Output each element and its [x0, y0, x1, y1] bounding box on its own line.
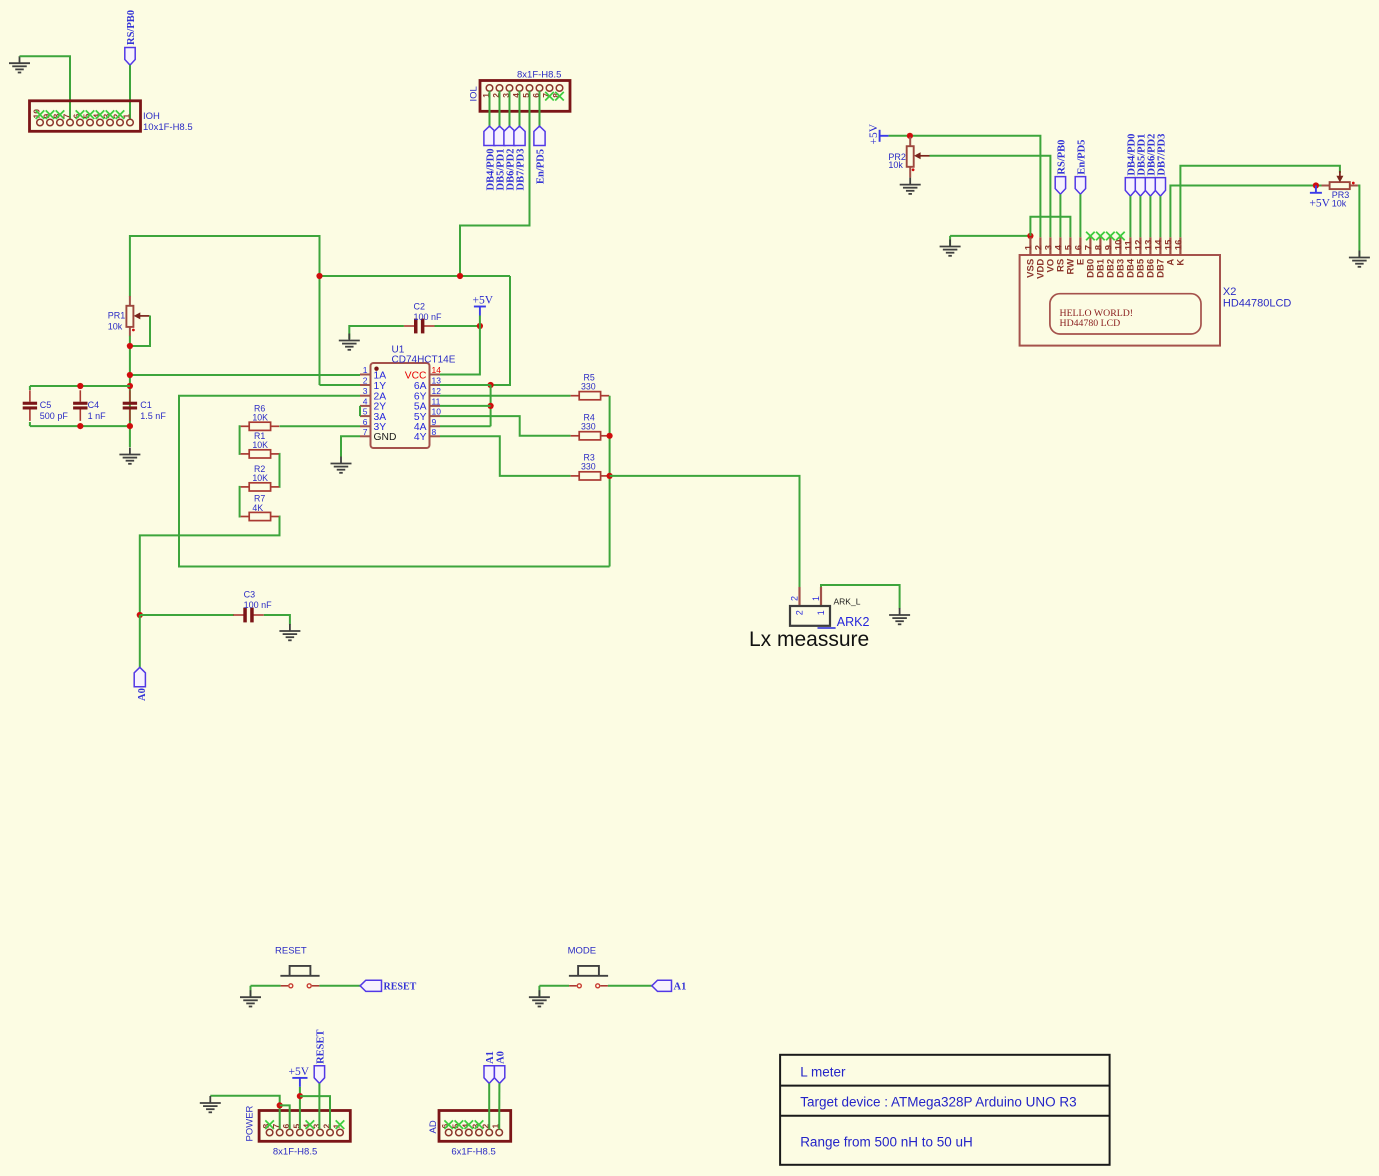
svg-text:7: 7 — [62, 114, 72, 119]
svg-text:8x1F-H8.5: 8x1F-H8.5 — [517, 70, 561, 81]
wire — [488, 1083, 490, 1129]
power +5V — [474, 307, 486, 316]
svg-text:12: 12 — [432, 386, 442, 396]
potentiometer PR1 10k — [126, 296, 149, 336]
svg-text:1Y: 1Y — [374, 381, 387, 392]
wire ground to POWER pins 7,6 — [210, 1096, 279, 1130]
POWER pin 3 — [317, 1129, 324, 1136]
AD pin 1 — [496, 1129, 503, 1136]
svg-text:10k: 10k — [108, 321, 123, 331]
U1 pin 8 4Y — [430, 435, 441, 437]
svg-text:1.5 nF: 1.5 nF — [140, 411, 166, 421]
junction — [77, 423, 83, 429]
X2 pin 2 VDD — [1039, 237, 1041, 255]
X2 pin 5 RW — [1069, 237, 1071, 255]
resistor R2 10K — [241, 483, 280, 491]
IOH pin 4 — [97, 119, 104, 126]
X2 pin 11 DB4 — [1129, 237, 1131, 255]
IOH pin 3 — [107, 119, 114, 126]
wire — [240, 487, 241, 517]
svg-text:IOL: IOL — [469, 86, 480, 101]
svg-text:330: 330 — [581, 421, 596, 431]
wire — [140, 614, 234, 616]
wire ARK2 pin1 to ground — [821, 585, 900, 609]
IOL pin 8 — [556, 85, 563, 92]
wire — [320, 275, 511, 277]
power +5V — [880, 130, 889, 142]
U1 pin 5 3A — [360, 415, 371, 417]
svg-text:3: 3 — [363, 386, 368, 396]
net flag En/PD5 — [1075, 177, 1085, 195]
resistor R7 4K — [241, 512, 280, 520]
wire — [499, 91, 501, 126]
svg-text:2: 2 — [790, 596, 800, 601]
junction — [127, 383, 133, 389]
power +5V — [292, 1078, 307, 1087]
junction — [127, 343, 133, 349]
power +5V — [1310, 186, 1322, 193]
wire — [30, 385, 130, 387]
wire — [949, 236, 951, 246]
svg-text:DB7/PD3: DB7/PD3 — [1156, 134, 1167, 176]
X2 pin 16 K — [1179, 237, 1181, 255]
U1 pin 3 2A — [360, 395, 371, 397]
wire — [1159, 196, 1161, 237]
svg-text:100 nF: 100 nF — [244, 600, 273, 610]
IOL pin 2 — [496, 85, 503, 92]
wire — [349, 326, 404, 339]
svg-text:6A: 6A — [414, 381, 427, 392]
resistor R3 330 — [571, 472, 610, 480]
wire U1 pin7 to ground — [341, 436, 360, 456]
wire U1 pin10 to R4 — [440, 416, 571, 436]
svg-text:10K: 10K — [252, 413, 268, 423]
svg-text:IOH: IOH — [143, 111, 160, 122]
svg-text:L meter: L meter — [800, 1065, 846, 1080]
capacitor C2 100nF — [404, 319, 435, 334]
svg-text:330: 330 — [581, 461, 596, 471]
svg-text:En/PD5: En/PD5 — [1076, 140, 1087, 175]
junction — [457, 273, 463, 279]
junction — [316, 273, 322, 279]
wire U1 pin6 from R6 — [280, 425, 361, 427]
wire — [1059, 194, 1061, 237]
IOL pin 1 — [486, 85, 493, 92]
svg-text:100 nF: 100 nF — [414, 312, 443, 322]
wire — [139, 615, 141, 667]
svg-text:6x1F-H8.5: 6x1F-H8.5 — [451, 1147, 495, 1158]
svg-text:+5V: +5V — [1309, 197, 1330, 209]
svg-text:10k: 10k — [888, 160, 903, 170]
POWER pin 4 — [307, 1129, 314, 1136]
junction — [1313, 182, 1319, 188]
connector IOH 10x1F-H8.5 — [30, 101, 141, 132]
IOH pin 2 — [117, 119, 124, 126]
net flag RESET — [314, 1066, 324, 1084]
svg-text:CD74HCT14E: CD74HCT14E — [392, 354, 456, 365]
net flag DB4/PD0 — [484, 126, 495, 146]
resistor R5 330 — [571, 392, 610, 400]
IOH pin 9 — [47, 119, 54, 126]
U1 pin 14 VCC — [430, 374, 441, 376]
LCD module X2 HD44780LCD — [1020, 255, 1220, 346]
svg-text:2: 2 — [363, 376, 368, 386]
svg-text:POWER: POWER — [244, 1105, 255, 1141]
connector ARK2 ARK_L pin 2 — [798, 587, 800, 606]
wire — [319, 985, 360, 987]
wire +5V to POWER pins 5,2 — [299, 1087, 301, 1130]
svg-text:A1: A1 — [485, 1051, 496, 1064]
capacitor C3 100nF — [233, 608, 264, 623]
svg-text:En/PD5: En/PD5 — [536, 149, 547, 184]
ground — [119, 448, 140, 464]
POWER pin 2 — [327, 1129, 334, 1136]
IOH pin 8 — [57, 119, 64, 126]
IOH pin 5 — [87, 119, 94, 126]
ground — [240, 990, 261, 1006]
wire — [539, 985, 569, 987]
svg-text:10: 10 — [432, 407, 442, 417]
wire — [519, 91, 521, 126]
wire U1 pin1 net — [130, 374, 360, 376]
IOH pin 10 — [37, 119, 44, 126]
X2 pin 9 DB2 — [1109, 237, 1111, 255]
svg-text:14: 14 — [432, 365, 442, 375]
capacitor C1 1.5nF — [123, 390, 137, 421]
wire PR3 to ground — [1358, 186, 1360, 258]
wire — [538, 986, 540, 997]
wire — [278, 454, 280, 487]
IOL pin 5 — [526, 85, 533, 92]
ground — [331, 457, 352, 473]
svg-text:1: 1 — [811, 596, 821, 601]
svg-text:ARK_L: ARK_L — [834, 597, 861, 607]
X2 pin 7 DB0 — [1089, 237, 1091, 255]
svg-text:330: 330 — [581, 381, 596, 391]
op-amp U1 CD74HCT14E hex inverter — [371, 363, 430, 448]
IOH pin 7 — [67, 119, 74, 126]
svg-text:HD44780 LCD: HD44780 LCD — [1060, 318, 1121, 329]
net flag DB7/PD3 — [1155, 178, 1165, 197]
wire A to +5V rail — [1170, 186, 1321, 238]
net flag DB7/PD3 — [514, 126, 525, 146]
IOL pin 6 — [536, 85, 543, 92]
ground — [200, 1096, 221, 1112]
IOH pin 6 — [77, 119, 84, 126]
wire — [250, 986, 252, 997]
AD pin 5 — [456, 1129, 463, 1136]
svg-text:C3: C3 — [244, 590, 256, 600]
U1 pin 1 1A — [360, 374, 371, 376]
wire output bus — [609, 396, 611, 567]
wire U1 pin3 long feedback — [179, 396, 610, 567]
resistor R6 10K — [241, 422, 280, 430]
junction — [907, 133, 913, 139]
wire +5V to VDD — [889, 136, 1041, 238]
connector ARK2 body — [790, 606, 830, 626]
AD pin 2 — [486, 1129, 493, 1136]
svg-text:+5V: +5V — [289, 1066, 310, 1078]
AD pin 4 — [466, 1129, 473, 1136]
svg-text:Range from 500 nH to 50 uH: Range from 500 nH to 50 uH — [800, 1135, 973, 1150]
IOL pin 3 — [506, 85, 513, 92]
X2 pin 8 DB1 — [1099, 237, 1101, 255]
wire VSS ground net — [950, 236, 1030, 237]
svg-text:DB7/PD3: DB7/PD3 — [516, 149, 527, 191]
svg-text:C1: C1 — [140, 400, 152, 410]
svg-text:RESET: RESET — [275, 946, 307, 957]
svg-text:A0: A0 — [137, 688, 148, 701]
wire — [1129, 196, 1131, 237]
junction — [1027, 233, 1033, 239]
U1 pin 7 GND — [360, 435, 371, 437]
svg-text:A1: A1 — [674, 982, 687, 993]
POWER pin 1 — [337, 1129, 344, 1136]
connector IOL 8x1F-H8.5 — [480, 81, 570, 112]
net flag RS/PB0 — [125, 48, 135, 66]
junction — [607, 473, 613, 479]
svg-text:ARK2: ARK2 — [837, 615, 870, 629]
wire — [129, 65, 131, 119]
U1 pin 10 5Y — [430, 415, 441, 417]
svg-text:+5V: +5V — [473, 295, 494, 307]
wire — [539, 91, 541, 126]
net flag A1 — [484, 1066, 494, 1084]
wire — [498, 1083, 500, 1129]
AD pin 3 — [476, 1129, 483, 1136]
svg-text:16: 16 — [1173, 240, 1184, 251]
X2 pin 6 E — [1079, 237, 1081, 255]
wire — [130, 236, 320, 385]
junction — [127, 372, 133, 378]
net flag A1 — [652, 980, 672, 991]
ground — [279, 624, 300, 640]
wire — [490, 385, 492, 426]
junction — [607, 433, 613, 439]
svg-text:2: 2 — [794, 610, 804, 615]
POWER pin 6 — [286, 1129, 293, 1136]
wire — [1139, 196, 1141, 237]
wire IOL pin5 to oscillator bus — [460, 91, 530, 276]
wire U1 pin13 — [440, 384, 491, 386]
ground — [940, 240, 961, 256]
net flag RS/PB0 — [1055, 177, 1065, 195]
svg-text:6: 6 — [363, 417, 368, 427]
svg-text:C2: C2 — [414, 302, 426, 312]
svg-text:4K: 4K — [252, 503, 263, 513]
U1 pin 4 2Y — [360, 405, 371, 407]
net flag En/PD5 — [534, 126, 545, 146]
resistor R4 330 — [571, 432, 610, 440]
svg-text:11: 11 — [432, 396, 441, 406]
U1 pin 6 3Y — [360, 425, 371, 427]
svg-text:4Y: 4Y — [414, 432, 427, 443]
title block — [780, 1055, 1110, 1165]
potentiometer PR2 10k — [907, 137, 930, 178]
svg-text:PR1: PR1 — [108, 311, 126, 321]
ground — [889, 608, 910, 624]
pushbutton MODE — [569, 966, 608, 976]
wire — [300, 1096, 330, 1129]
wire to ARK2 — [610, 476, 800, 587]
resistor R1 10K — [241, 450, 280, 458]
junction — [488, 382, 494, 388]
ground — [9, 56, 30, 72]
wire U1 pin2 — [320, 384, 361, 386]
U1 pin 9 4A — [430, 425, 441, 427]
wire VCC — [440, 326, 480, 375]
wire PR1 wiper to bottom — [130, 316, 150, 347]
svg-text:10x1F-H8.5: 10x1F-H8.5 — [143, 122, 193, 133]
X2 pin 1 VSS — [1029, 237, 1031, 255]
wire — [608, 985, 652, 987]
wire — [30, 425, 130, 427]
svg-text:500 pF: 500 pF — [40, 411, 69, 421]
wire — [479, 316, 481, 327]
svg-text:RS/PB0: RS/PB0 — [1056, 140, 1067, 175]
wire — [280, 1105, 290, 1129]
connector ARK2 ARK_L pin 1 — [820, 587, 822, 606]
capacitor C5 500pF — [23, 390, 37, 421]
ground — [529, 990, 550, 1006]
junction — [488, 403, 494, 409]
svg-text:RS/PB0: RS/PB0 — [126, 10, 137, 45]
U1 pin 13 6A — [430, 384, 441, 386]
wire — [29, 386, 31, 390]
svg-text:GND: GND — [374, 432, 397, 443]
capacitor C4 1nF — [73, 390, 87, 421]
svg-text:4: 4 — [363, 396, 368, 406]
POWER pin 7 — [276, 1129, 283, 1136]
svg-text:RESET: RESET — [384, 982, 417, 993]
wire — [240, 426, 241, 454]
svg-text:K: K — [1176, 259, 1187, 266]
svg-text:Lx meassure: Lx meassure — [749, 628, 869, 651]
svg-text:+5V: +5V — [868, 123, 880, 144]
junction — [277, 1102, 283, 1108]
LCD screen — [1050, 294, 1201, 334]
svg-text:Target device : ATMega328P Ard: Target device : ATMega328P Arduino UNO R… — [800, 1094, 1076, 1109]
wire — [509, 91, 511, 126]
X2 pin 12 DB5 — [1139, 237, 1141, 255]
wire — [440, 276, 510, 385]
svg-text:10k: 10k — [1332, 198, 1347, 208]
net flag DB5/PD1 — [1135, 178, 1145, 197]
wire U1 pin9 — [440, 425, 491, 427]
junction — [477, 323, 483, 329]
POWER pin 8 — [266, 1129, 273, 1136]
X2 pin 14 DB7 — [1159, 237, 1161, 255]
wire R7 to A0 node — [140, 517, 280, 616]
junction — [77, 383, 83, 389]
connector AD 6x1F-H8.5 — [439, 1111, 511, 1142]
U1 pin 12 6Y — [430, 395, 441, 397]
svg-text:10K: 10K — [252, 440, 268, 450]
X2 pin 4 RS — [1059, 237, 1061, 255]
X2 pin 10 DB3 — [1119, 237, 1121, 255]
svg-text:1: 1 — [816, 610, 826, 615]
wire — [489, 91, 491, 126]
POWER pin 5 — [297, 1129, 304, 1136]
junction — [297, 1093, 303, 1099]
svg-text:1: 1 — [122, 114, 132, 119]
ground — [900, 178, 921, 194]
X2 pin 3 VO — [1049, 237, 1051, 255]
svg-text:C5: C5 — [40, 400, 52, 410]
pushbutton RESET — [280, 966, 319, 976]
potentiometer PR3 10k — [1322, 171, 1358, 189]
svg-text:HD44780LCD: HD44780LCD — [1223, 298, 1292, 310]
svg-text:9: 9 — [432, 417, 437, 427]
net flag A0 — [134, 667, 145, 687]
svg-text:1 nF: 1 nF — [88, 411, 107, 421]
svg-text:13: 13 — [432, 376, 442, 386]
svg-text:VCC: VCC — [405, 370, 427, 381]
X2 pin 13 DB6 — [1149, 237, 1151, 255]
svg-text:5: 5 — [363, 407, 368, 417]
net flag DB6/PD2 — [1145, 178, 1155, 197]
wire — [1149, 196, 1151, 237]
svg-text:RESET: RESET — [315, 1029, 326, 1063]
svg-text:C4: C4 — [88, 400, 100, 410]
IOL pin 7 — [546, 85, 553, 92]
net flag A0 — [494, 1066, 504, 1084]
wire — [318, 1083, 320, 1129]
net flag DB6/PD2 — [504, 126, 515, 146]
net flag RESET — [360, 980, 381, 991]
X2 pin 15 A — [1169, 237, 1171, 255]
IOH pin 1 — [127, 119, 134, 126]
net flag DB4/PD0 — [1125, 178, 1135, 197]
wire U1 pin8 to R3 — [440, 436, 571, 476]
wire PR2 wiper to VO — [930, 156, 1051, 238]
svg-text:8: 8 — [432, 427, 437, 437]
ground — [339, 334, 360, 350]
wire — [264, 615, 290, 625]
svg-text:A0: A0 — [496, 1051, 507, 1064]
wire — [129, 336, 131, 447]
wire VSS to RW — [1030, 217, 1070, 238]
wire — [1079, 194, 1081, 237]
wire U1 pin11 — [440, 405, 491, 407]
svg-text:1: 1 — [363, 365, 368, 375]
junction node A0 — [137, 612, 143, 618]
ground — [1349, 251, 1370, 267]
wire — [29, 422, 31, 426]
svg-text:X2: X2 — [1223, 286, 1236, 298]
wire U1 pin4 to pin5 — [359, 406, 361, 416]
svg-text:7: 7 — [363, 427, 368, 437]
junction — [127, 423, 133, 429]
U1 pin 2 1Y — [360, 384, 371, 386]
svg-text:AD: AD — [428, 1120, 439, 1133]
svg-text:MODE: MODE — [568, 946, 597, 957]
svg-text:1A: 1A — [374, 370, 387, 381]
wire U1 pin12 to R5 — [440, 395, 571, 397]
net flag DB5/PD1 — [494, 126, 505, 146]
IOL pin 4 — [516, 85, 523, 92]
connector POWER 8x1F-H8.5 — [259, 1111, 350, 1142]
svg-text:8x1F-H8.5: 8x1F-H8.5 — [273, 1147, 317, 1158]
svg-text:10K: 10K — [252, 473, 268, 483]
wire — [251, 985, 281, 987]
U1 pin 11 5A — [430, 405, 441, 407]
wire — [435, 325, 480, 327]
wire K to PR3 wiper — [1180, 166, 1340, 238]
AD pin 6 — [445, 1129, 452, 1136]
wire — [20, 56, 71, 119]
